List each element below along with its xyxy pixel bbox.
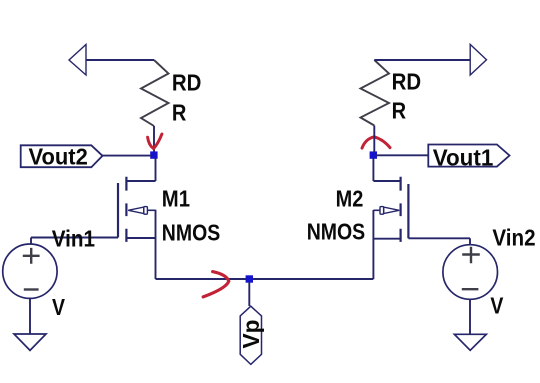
transistor M2 bulk arrow (points right into channel)	[384, 207, 400, 213]
svg-text:M1: M1	[162, 185, 190, 211]
transistor M1 source lead	[126, 237, 155, 239]
transistor M1 source/bulk vertical	[155, 210, 157, 279]
flag Vp (net label, vertical)	[240, 306, 261, 364]
resistor RD (right) zigzag body	[361, 60, 390, 126]
voltage source Vin2 circle	[443, 245, 498, 300]
transistor M2 source/bulk vertical	[372, 210, 374, 279]
svg-text:Vout2: Vout2	[29, 143, 88, 169]
node Vout1 (junction square)	[370, 151, 377, 158]
port arrow left (top-left, pointing left)	[69, 45, 86, 76]
red current arc at node Vout1	[362, 137, 390, 148]
transistor M2 channel dashes	[400, 177, 402, 242]
wire node Vout1 to flag	[376, 154, 428, 156]
svg-text:NMOS: NMOS	[162, 219, 220, 245]
svg-text:V: V	[52, 294, 66, 320]
transistor M1 channel dashes	[125, 177, 127, 242]
svg-text:RD: RD	[172, 69, 202, 95]
svg-text:NMOS: NMOS	[307, 219, 366, 245]
wire Vin2 top stub	[469, 238, 471, 245]
red current arrow (right) on rail	[203, 272, 229, 297]
transistor M2 drain lead	[373, 180, 400, 182]
node Vp (junction square)	[246, 275, 253, 282]
voltage source Vin2 minus sign	[462, 288, 479, 290]
wire node Vp to flag	[248, 282, 250, 306]
wire gate of M1 to Vin1	[31, 237, 118, 239]
voltage source Vin1 circle	[3, 244, 57, 298]
transistor M1 bulk lead wire	[147, 209, 156, 211]
svg-text:Vin2: Vin2	[492, 225, 535, 251]
svg-text:RD: RD	[392, 69, 422, 95]
transistor M2 drain wire (node to drain lead)	[372, 158, 374, 181]
transistor M2 bulk lead wire	[373, 209, 380, 211]
wire Vin2 bottom stub to ground	[469, 299, 471, 334]
transistor M2 gate bar	[407, 184, 409, 238]
svg-text:R: R	[392, 97, 407, 123]
flag Vout1 (net label)	[428, 145, 509, 167]
transistor M1 drain wire (node to drain lead)	[155, 158, 157, 181]
resistor RD (left) zigzag body	[141, 60, 169, 126]
wire resistor RD right top to right arrow	[374, 59, 470, 61]
transistor M2 bulk arrow base box	[380, 207, 384, 215]
svg-text:Vp: Vp	[238, 320, 264, 349]
transistor M1 gate bar	[117, 183, 119, 238]
transistor M1 bulk arrow (points left into channel)	[128, 207, 144, 213]
port arrow right (top-right, pointing right)	[470, 44, 486, 75]
ground symbol (right)	[454, 334, 486, 350]
wire gate of M2 to Vin2	[408, 237, 470, 239]
svg-text:R: R	[172, 100, 187, 126]
transistor M1 bulk arrow base box	[144, 207, 148, 215]
voltage source Vin2 plus sign	[462, 247, 480, 263]
node Vout2 (junction square)	[150, 151, 157, 158]
wire Vin1 top stub	[30, 238, 32, 245]
wire from flag Vout2 to node	[103, 155, 152, 157]
voltage source Vin1 plus sign	[23, 248, 40, 264]
svg-text:Vin1: Vin1	[52, 226, 95, 252]
red current arrow (down) at node Vout2	[148, 134, 162, 149]
svg-text:Vout1: Vout1	[433, 144, 494, 170]
flag Vout2 (net label)	[21, 145, 103, 167]
wire Vin1 bottom stub to ground	[29, 298, 31, 334]
wire from left arrow to resistor RD top	[86, 59, 154, 61]
voltage source Vin1 minus sign	[24, 288, 39, 290]
wire: resistor RD left bottom lead to node Vout2	[153, 126, 155, 152]
transistor M1 drain lead	[126, 180, 155, 182]
ground symbol (left)	[14, 334, 46, 350]
wire: resistor RD right bottom lead to node Vout1	[373, 126, 375, 153]
svg-text:M2: M2	[336, 185, 364, 211]
transistor M2 source lead	[373, 238, 400, 240]
wire source rail M1-Vp-M2	[156, 278, 374, 280]
svg-text:V: V	[490, 292, 504, 318]
